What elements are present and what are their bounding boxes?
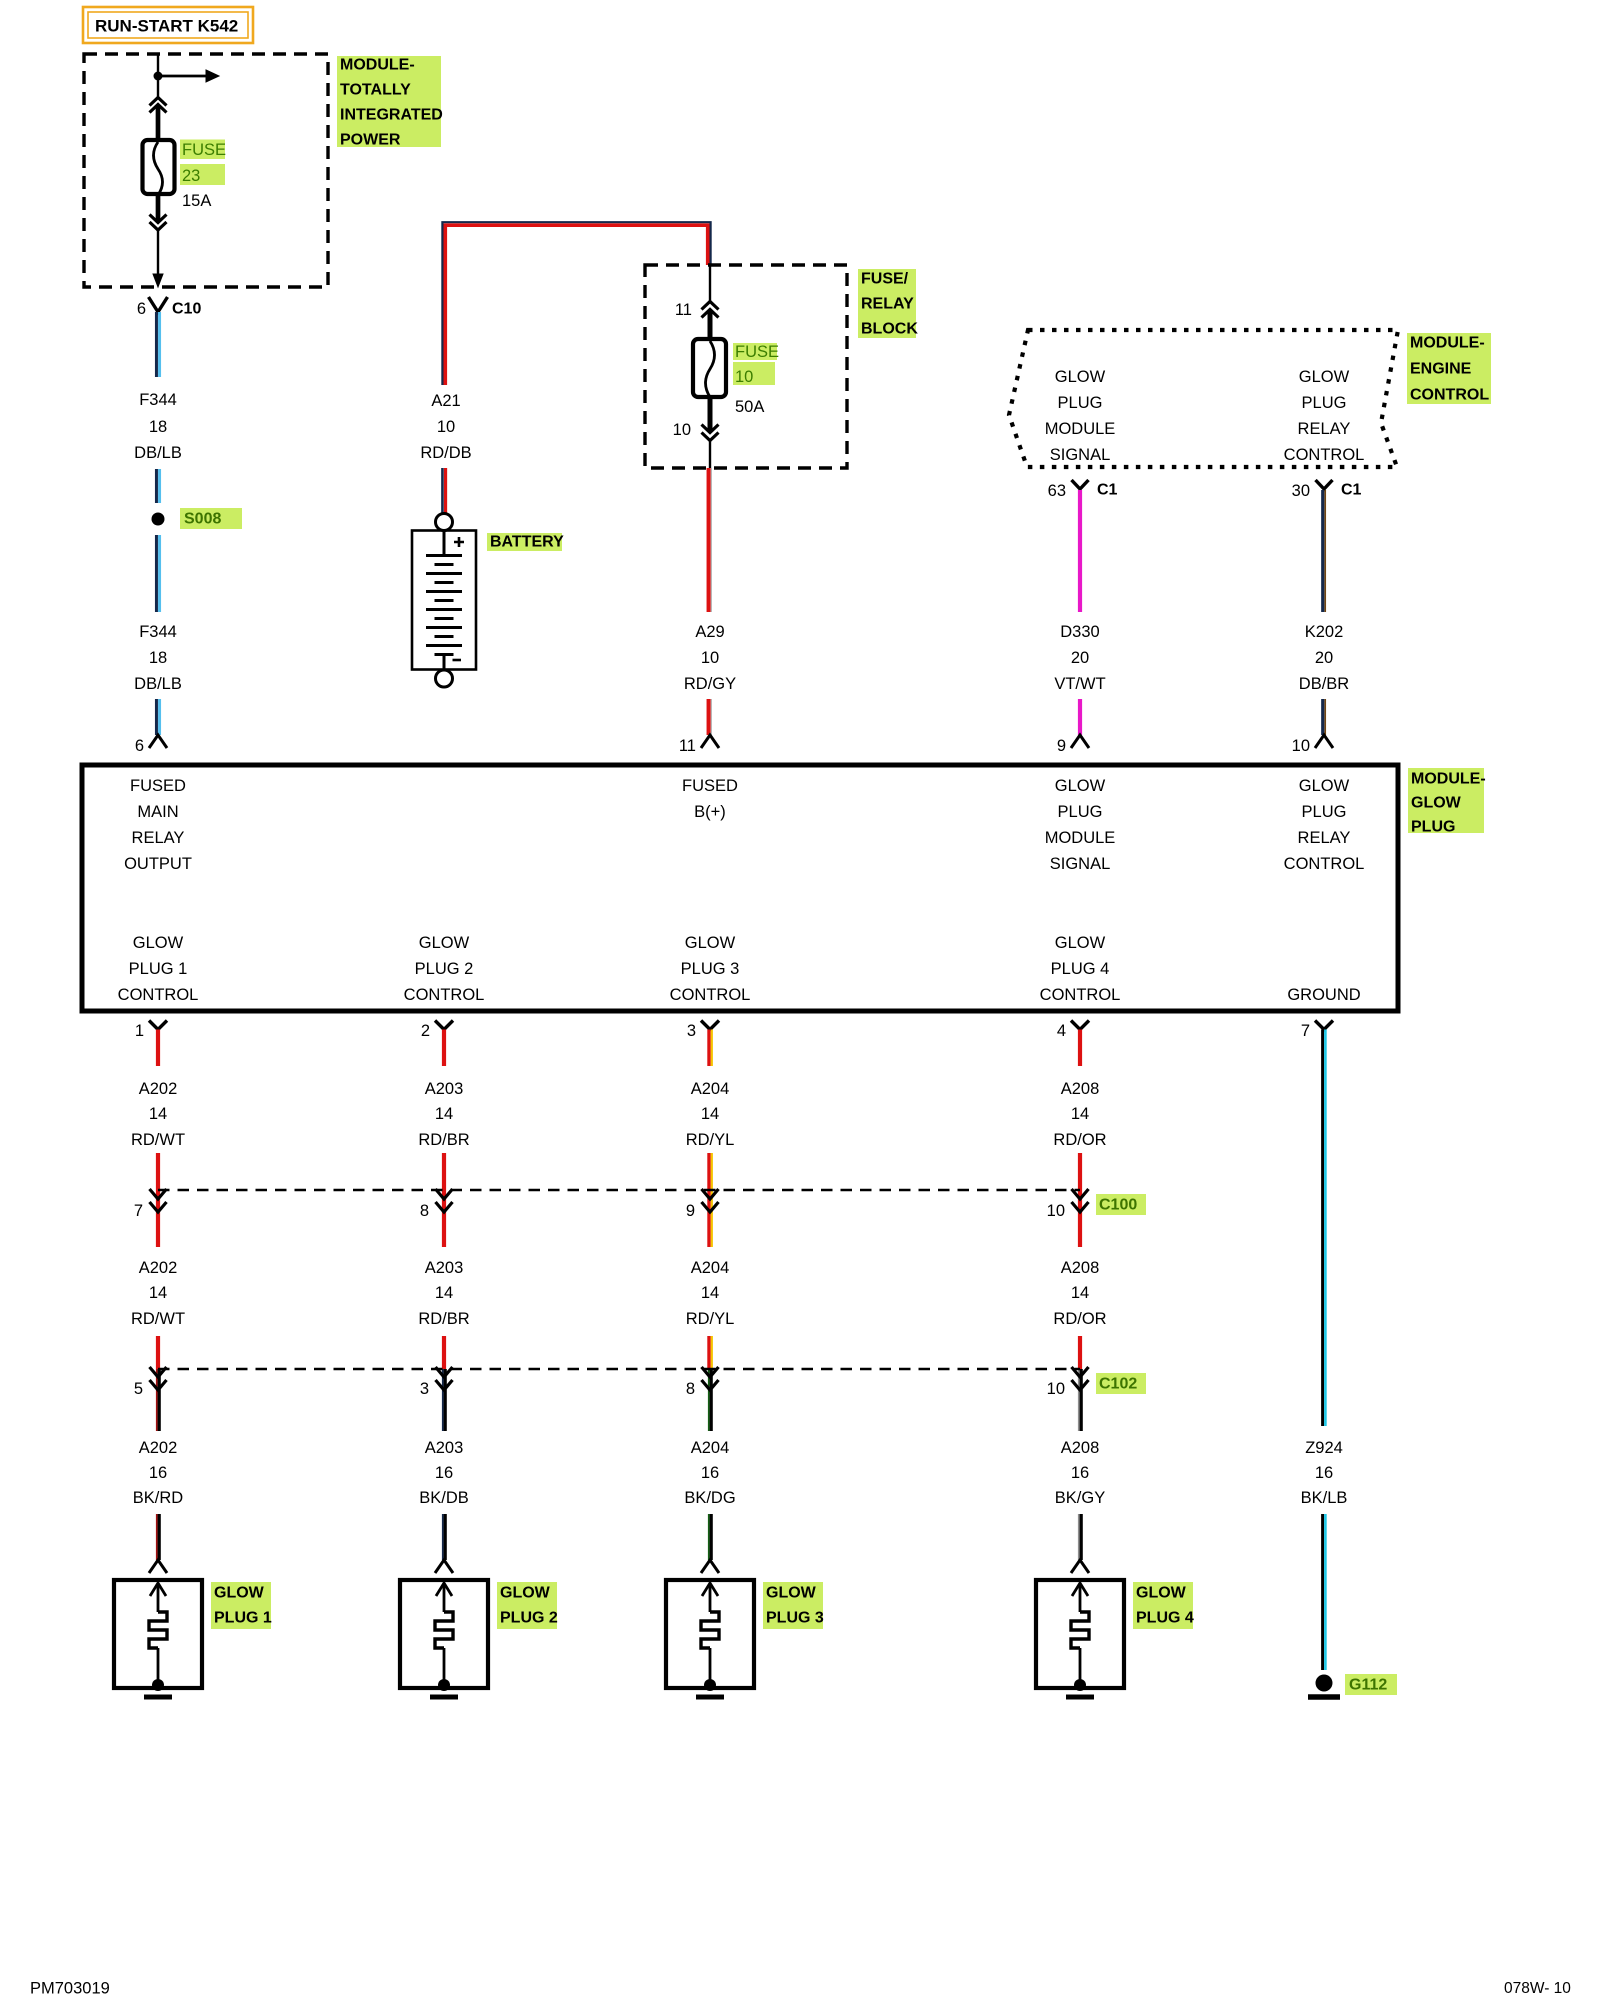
fuse/relay block dashed outline [645,265,847,468]
wire branch arrow to other circuits [158,70,219,82]
svg-text:A208: A208 [1061,1439,1100,1457]
svg-text:RELAY: RELAY [861,296,914,313]
wire A208 14 RD/OR from module pin [1078,1030,1082,1067]
svg-text:SIGNAL: SIGNAL [1050,855,1111,873]
svg-text:PM703019: PM703019 [30,1980,110,1998]
svg-text:DB/LB: DB/LB [134,444,182,462]
svg-text:BK/DB: BK/DB [419,1489,469,1507]
svg-text:PLUG 2: PLUG 2 [500,1610,558,1627]
connector into glow plug 1 [149,1560,167,1573]
svg-text:A204: A204 [691,1439,730,1457]
wire F344 below label [156,469,159,503]
svg-text:CONTROL: CONTROL [670,986,751,1004]
connector pin 6 into glow plug module [135,735,167,755]
svg-text:9: 9 [686,1202,695,1220]
wire A21 below label to battery [442,468,445,513]
connector pin 2 out of glow plug module [421,1021,453,1041]
svg-text:11: 11 [679,737,696,755]
svg-text:Z924: Z924 [1305,1439,1343,1457]
label wire A204 14 RD/YL [686,1080,735,1149]
svg-text:RD/BR: RD/BR [418,1310,469,1328]
svg-text:POWER: POWER [340,132,401,149]
svg-text:FUSE/: FUSE/ [861,271,909,288]
connector pin 10 into glow plug module [1292,735,1333,755]
wire A203 to glow plug 2 [443,1514,445,1560]
svg-text:C102: C102 [1099,1376,1137,1393]
label wire A203 14 RD/BR below C100 [418,1259,469,1328]
wire Z924 to ground G112 [1323,1514,1326,1670]
svg-text:INTEGRATED: INTEGRATED [340,107,443,124]
label wire A208 16 BK/GY [1055,1439,1105,1507]
svg-text:PLUG: PLUG [1302,803,1347,821]
svg-text:GLOW: GLOW [419,934,470,952]
label MODULE-TOTALLY INTEGRATED POWER [337,56,443,149]
svg-text:078W- 10: 078W- 10 [1504,1980,1571,1997]
svg-text:8: 8 [686,1380,695,1398]
wire D330 20 VT/WT upper segment [1078,490,1082,612]
ground G112 [1308,1674,1397,1697]
svg-text:CONTROL: CONTROL [118,986,199,1004]
ground bar glow plug 4 [1066,1695,1094,1700]
connector pin 3 out of glow plug module [687,1021,719,1041]
svg-text:MODULE-: MODULE- [1410,335,1485,352]
label wire A204 16 BK/DG [684,1439,735,1507]
label wire A208 14 RD/OR [1053,1080,1106,1149]
svg-text:23: 23 [182,167,200,185]
svg-text:3: 3 [687,1022,696,1040]
pin label GLOW PLUG 1 CONTROL [118,934,199,1004]
svg-text:FUSED: FUSED [682,777,738,795]
svg-text:PLUG 1: PLUG 1 [214,1610,272,1627]
wire K202 to glow plug module [1323,699,1326,735]
module Engine Control dotted outline [1009,330,1398,467]
wire Z924 16 BK/LB upper segment [1323,1030,1326,1427]
svg-text:GLOW: GLOW [133,934,184,952]
svg-text:A204: A204 [691,1259,730,1277]
wire F344 18 DB/LB upper segment [156,312,159,377]
svg-text:K202: K202 [1305,623,1344,641]
ground bar glow plug 3 [696,1695,724,1700]
battery B+ terminal [436,514,453,531]
svg-text:A202: A202 [139,1439,178,1457]
battery [412,531,476,670]
svg-text:PLUG: PLUG [1302,394,1347,412]
svg-text:PLUG: PLUG [1058,803,1103,821]
svg-text:C1: C1 [1341,482,1362,499]
ground bar glow plug 2 [430,1695,458,1700]
pin label GLOW PLUG 3 CONTROL [670,934,751,1004]
svg-text:BK/DG: BK/DG [684,1489,735,1507]
svg-text:VT/WT: VT/WT [1054,675,1105,693]
svg-text:GLOW: GLOW [1299,368,1350,386]
svg-text:RELAY: RELAY [1298,829,1351,847]
svg-text:A203: A203 [425,1080,464,1098]
svg-text:D330: D330 [1060,623,1099,641]
module Totally Integrated Power dashed outline [84,54,328,287]
svg-text:GLOW: GLOW [1055,934,1106,952]
svg-text:MAIN: MAIN [137,803,178,821]
wire F344 below splice S008 [156,535,159,612]
svg-text:A208: A208 [1061,1259,1100,1277]
svg-text:GLOW: GLOW [1136,1585,1187,1602]
svg-text:GLOW: GLOW [500,1585,551,1602]
glow plug 4 [1036,1580,1124,1691]
svg-text:10: 10 [1047,1202,1065,1220]
svg-text:GLOW: GLOW [214,1585,265,1602]
connector C102 halves pin 3 [420,1367,453,1398]
svg-text:14: 14 [435,1284,453,1302]
label connector C100 [1096,1194,1146,1215]
svg-text:G112: G112 [1349,1677,1387,1694]
svg-text:PLUG 3: PLUG 3 [766,1610,824,1627]
svg-text:14: 14 [149,1105,167,1123]
svg-text:10: 10 [437,418,455,436]
connector C100 halves pin 7 [134,1189,167,1220]
svg-text:GLOW: GLOW [1055,368,1106,386]
label wire A203 16 BK/DB [419,1439,469,1507]
label GLOW PLUG 1 [211,1582,272,1629]
svg-text:5: 5 [134,1380,143,1398]
label FUSE/RELAY BLOCK [858,269,918,338]
label wire D330 20 VT/WT [1054,623,1105,693]
label wire A29 10 RD/GY [684,623,736,693]
connector chevrons pin 11 [675,301,719,319]
svg-text:9: 9 [1057,737,1066,755]
wire to fuse block edge [709,440,711,468]
svg-text:PLUG 4: PLUG 4 [1136,1610,1194,1627]
svg-text:CONTROL: CONTROL [1040,986,1121,1004]
svg-text:15A: 15A [182,192,211,210]
label GLOW PLUG RELAY CONTROL pin [1284,368,1365,464]
connector pin 9 into glow plug module [1057,735,1089,755]
svg-text:FUSED: FUSED [130,777,186,795]
svg-text:BLOCK: BLOCK [861,321,918,338]
svg-text:GROUND: GROUND [1287,986,1360,1004]
svg-text:10: 10 [701,649,719,667]
svg-text:14: 14 [1071,1284,1089,1302]
svg-text:1: 1 [135,1022,144,1040]
node junction dot [154,72,163,81]
svg-text:B(+): B(+) [694,803,726,821]
pin label GLOW PLUG RELAY CONTROL [1284,777,1365,873]
svg-text:A208: A208 [1061,1080,1100,1098]
node RUN-START K542 power feed box [83,7,253,43]
battery negative terminal [436,670,453,687]
svg-text:GLOW: GLOW [1411,795,1462,812]
wire A203 14 RD/BR from module pin [442,1030,446,1067]
svg-text:18: 18 [149,418,167,436]
svg-text:RELAY: RELAY [1298,420,1351,438]
svg-text:3: 3 [420,1380,429,1398]
connector chevrons above fuse 23 [150,98,167,113]
svg-text:SIGNAL: SIGNAL [1050,446,1111,464]
svg-text:30: 30 [1292,482,1310,500]
wire junction to fuse 23 [157,76,159,98]
glow plug 3 [666,1580,754,1691]
svg-text:RD/OR: RD/OR [1053,1310,1106,1328]
svg-text:ENGINE: ENGINE [1410,361,1472,378]
svg-text:CONTROL: CONTROL [1410,387,1489,404]
svg-text:DB/LB: DB/LB [134,675,182,693]
svg-text:20: 20 [1071,649,1089,667]
module Glow Plug outline [82,765,1398,1011]
svg-text:50A: 50A [735,398,764,416]
connector C100 halves pin 10 [1047,1189,1089,1220]
svg-text:A203: A203 [425,1259,464,1277]
svg-text:BK/LB: BK/LB [1301,1489,1348,1507]
svg-text:CONTROL: CONTROL [404,986,485,1004]
svg-text:GLOW: GLOW [685,934,736,952]
wire A29 10 RD/GY upper segment [709,468,712,612]
wire into fuse 23 [156,105,161,141]
svg-text:RD/DB: RD/DB [420,444,471,462]
wire out of fuse 10 [708,397,713,431]
svg-text:DB/BR: DB/BR [1299,675,1350,693]
svg-text:BK/GY: BK/GY [1055,1489,1105,1507]
wire F344 to glow plug module [156,699,159,735]
connector pin 7 out of glow plug module [1301,1021,1333,1041]
svg-text:A202: A202 [139,1080,178,1098]
connector into glow plug 3 [701,1560,719,1573]
wire into fuse 10 [709,265,711,302]
label wire A202 16 BK/RD [133,1439,184,1507]
pin label GLOW PLUG MODULE SIGNAL [1045,777,1116,873]
svg-text:BK/RD: BK/RD [133,1489,184,1507]
svg-text:PLUG 1: PLUG 1 [129,960,188,978]
svg-text:16: 16 [435,1464,453,1482]
label wire K202 20 DB/BR [1299,623,1350,693]
label wire A208 14 RD/OR below C100 [1053,1259,1106,1328]
label MODULE-GLOW PLUG [1408,768,1486,836]
svg-text:8: 8 [420,1202,429,1220]
wire A202 16 BK/RD out of C102 [157,1369,159,1431]
connector chevrons below fuse 23 [150,215,167,231]
connector C1 pin 30 [1292,480,1362,500]
svg-text:16: 16 [1315,1464,1333,1482]
wire A203 into connector C102 [442,1336,446,1369]
svg-text:MODULE: MODULE [1045,420,1116,438]
wire A203 through connector C100 [442,1153,446,1247]
ground bar glow plug 1 [144,1695,172,1700]
svg-text:10: 10 [1047,1380,1065,1398]
footer drawing number PM703019 [30,1980,110,1998]
glow plug 2 [400,1580,488,1691]
connector pin 11 into glow plug module [679,735,719,755]
svg-text:10: 10 [735,368,753,386]
svg-text:PLUG 4: PLUG 4 [1051,960,1110,978]
svg-text:RD/YL: RD/YL [686,1131,735,1149]
glow plug 1 [114,1580,202,1691]
footer sheet number 078W-10 [1504,1980,1571,1997]
label FUSE 23 15A [180,140,226,211]
svg-text:MODULE-: MODULE- [1411,771,1486,788]
svg-text:A202: A202 [139,1259,178,1277]
wire A21 10 RD/DB battery to fuse block [442,222,710,385]
svg-text:A203: A203 [425,1439,464,1457]
svg-text:2: 2 [421,1022,430,1040]
svg-text:10: 10 [673,421,691,439]
svg-text:OUTPUT: OUTPUT [124,855,192,873]
connector C1 pin 63 [1048,480,1118,500]
label wire Z924 16 BK/LB [1301,1439,1348,1507]
svg-text:RELAY: RELAY [132,829,185,847]
svg-text:PLUG 3: PLUG 3 [681,960,740,978]
connector C102 halves pin 10 [1047,1367,1089,1398]
label wire A203 14 RD/BR [418,1080,469,1149]
svg-text:RD/BR: RD/BR [418,1131,469,1149]
svg-text:A29: A29 [695,623,724,641]
svg-text:FUSE: FUSE [735,343,779,361]
wire A202 through connector C100 [156,1153,160,1247]
svg-text:7: 7 [1301,1022,1310,1040]
wire A204 to glow plug 3 [709,1514,711,1560]
svg-text:16: 16 [149,1464,167,1482]
connector pin 4 out of glow plug module [1057,1021,1089,1041]
label GLOW PLUG MODULE SIGNAL pin [1045,368,1116,464]
svg-text:PLUG: PLUG [1411,819,1455,836]
wire A204 through connector C100 [709,1153,712,1247]
wire to TIPM edge with arrowhead [153,230,163,287]
wire A29 to glow plug module [709,699,712,735]
svg-text:14: 14 [149,1284,167,1302]
svg-text:20: 20 [1315,649,1333,667]
svg-text:C1: C1 [1097,482,1118,499]
label GLOW PLUG 2 [497,1582,558,1629]
label GLOW PLUG 3 [763,1582,824,1629]
label FUSE 10 50A [733,343,779,416]
pin label FUSED MAIN RELAY OUTPUT [124,777,192,873]
svg-text:RUN-START K542: RUN-START K542 [95,17,238,36]
wire A208 into connector C102 [1078,1336,1082,1369]
wire from run-start feed into TIPM [157,54,159,76]
svg-text:4: 4 [1057,1022,1066,1040]
svg-text:F344: F344 [139,623,177,641]
connector into glow plug 2 [435,1560,453,1573]
label MODULE-ENGINE CONTROL [1407,333,1491,404]
label wire F344 18 DB/LB [134,391,182,462]
svg-text:14: 14 [701,1284,719,1302]
svg-text:RD/WT: RD/WT [131,1131,185,1149]
wire A202 to glow plug 1 [157,1514,159,1560]
svg-text:RD/WT: RD/WT [131,1310,185,1328]
wire A204 16 BK/DG out of C102 [709,1369,711,1431]
connector C102 halves pin 8 [686,1367,719,1398]
fuse 10 50A [693,339,726,397]
svg-text:PLUG 2: PLUG 2 [415,960,474,978]
label wire A202 14 RD/WT [131,1080,185,1149]
svg-text:RD/GY: RD/GY [684,675,736,693]
svg-text:63: 63 [1048,482,1066,500]
pin label FUSED B(+) [682,777,738,821]
svg-text:GLOW: GLOW [1299,777,1350,795]
svg-text:16: 16 [1071,1464,1089,1482]
label connector C102 [1096,1373,1146,1394]
connector pin 1 out of glow plug module [135,1021,167,1041]
svg-text:GLOW: GLOW [1055,777,1106,795]
svg-text:11: 11 [675,301,692,319]
svg-text:CONTROL: CONTROL [1284,855,1365,873]
wire A203 16 BK/DB out of C102 [443,1369,445,1431]
svg-text:BATTERY: BATTERY [490,534,564,551]
svg-text:RD/YL: RD/YL [686,1310,735,1328]
pin label GLOW PLUG 4 CONTROL [1040,934,1121,1004]
connector C100 halves pin 9 [686,1189,719,1220]
wire A204 into connector C102 [709,1336,712,1369]
inline connector C102 dashed line [158,1368,1080,1371]
wire to fuse 10 [708,310,713,340]
wire A208 through connector C100 [1078,1153,1082,1247]
connector C100 halves pin 8 [420,1189,453,1220]
svg-text:S008: S008 [184,511,221,528]
svg-text:TOTALLY: TOTALLY [340,82,411,99]
node splice S008 [152,508,243,529]
svg-text:C10: C10 [172,301,201,318]
wire A204 14 RD/YL from module pin [709,1030,712,1067]
wire A208 to glow plug 4 [1079,1514,1081,1560]
inline connector C100 dashed line [158,1189,1080,1192]
svg-text:A21: A21 [431,392,460,410]
svg-text:F344: F344 [139,391,177,409]
label GLOW PLUG 4 [1133,1582,1194,1629]
svg-text:6: 6 [137,300,146,318]
svg-text:16: 16 [701,1464,719,1482]
wire A202 into connector C102 [156,1336,160,1369]
svg-text:PLUG: PLUG [1058,394,1103,412]
wire A202 14 RD/WT from module pin [156,1030,160,1067]
fuse 23 15A [143,140,175,195]
svg-text:14: 14 [701,1105,719,1123]
svg-text:CONTROL: CONTROL [1284,446,1365,464]
connector into glow plug 4 [1071,1560,1089,1573]
svg-text:FUSE: FUSE [182,141,226,159]
svg-text:C100: C100 [1099,1197,1137,1214]
svg-text:RD/OR: RD/OR [1053,1131,1106,1149]
label BATTERY [487,533,564,551]
wire D330 to glow plug module [1078,699,1082,735]
pin label GLOW PLUG 2 CONTROL [404,934,485,1004]
svg-text:A204: A204 [691,1080,730,1098]
svg-text:MODULE: MODULE [1045,829,1116,847]
pin label GROUND [1287,986,1360,1004]
svg-text:10: 10 [1292,737,1310,755]
label wire A202 14 RD/WT below C100 [131,1259,185,1328]
wire out of fuse 23 [156,194,161,221]
connector chevrons pin 10 [673,421,719,441]
connector C102 halves pin 5 [134,1367,167,1398]
label wire F344 18 DB/LB second [134,623,182,693]
wire A208 16 BK/GY out of C102 [1079,1369,1081,1431]
connector C10 pin 6 [137,297,202,318]
label wire A204 14 RD/YL below C100 [686,1259,735,1328]
svg-text:14: 14 [1071,1105,1089,1123]
svg-text:6: 6 [135,737,144,755]
svg-text:7: 7 [134,1202,143,1220]
svg-text:14: 14 [435,1105,453,1123]
svg-text:MODULE-: MODULE- [340,57,415,74]
wire K202 20 DB/BR upper segment [1323,490,1326,612]
label wire A21 10 RD/DB [420,392,471,462]
svg-text:18: 18 [149,649,167,667]
svg-text:GLOW: GLOW [766,1585,817,1602]
